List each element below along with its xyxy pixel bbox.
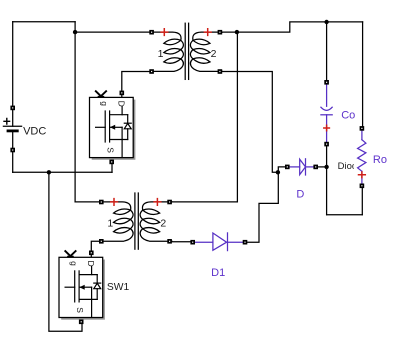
node: primary feed branch bbox=[73, 30, 77, 34]
battery VDC bbox=[3, 119, 21, 131]
diode D1 bbox=[195, 233, 243, 251]
wire: Ro bottom column bbox=[361, 188, 363, 215]
wire: run from node to diode D1 cathode bbox=[247, 172, 278, 242]
capacitor Co polarity + bbox=[324, 125, 330, 131]
wire: transformer2 secondary bottom to D1 anode bbox=[172, 241, 190, 243]
node: D cathode / output bottom bbox=[324, 165, 328, 169]
capacitor Co port squares bbox=[324, 80, 329, 146]
wire: transformer1 secondary top to output top rail bbox=[222, 22, 362, 32]
svg-text:D: D bbox=[296, 188, 304, 200]
wire: transformer2 primary bottom to SW1 D bbox=[91, 241, 99, 257]
wire: VDC positive column bbox=[12, 22, 14, 127]
wire: SW1 source return loop bbox=[49, 172, 82, 331]
node: VDC- / SW1 source bbox=[47, 170, 51, 174]
transistor SW1 (lower MOSFET switch block) bbox=[59, 251, 105, 325]
wire: Co branch from top rail bbox=[326, 22, 328, 80]
svg-text:VDC: VDC bbox=[23, 126, 46, 138]
resistor Ro port squares bbox=[360, 126, 365, 188]
wire: branch to transformer1 primary top bbox=[75, 31, 149, 33]
svg-text:SW1: SW1 bbox=[107, 282, 130, 293]
wire: jog to diode D anode bbox=[278, 167, 285, 172]
node: D anode / D1 cathode bbox=[276, 170, 280, 174]
wire: transformer1 primary bottom to upper switch D bbox=[122, 72, 150, 98]
transformer T2 bbox=[99, 193, 172, 249]
wire: VDC negative column bbox=[12, 131, 14, 172]
wire: VDC- bottom rail to switch S bbox=[13, 171, 112, 173]
wire: Co bottom column bbox=[326, 146, 328, 214]
node: top rail / Co branch bbox=[324, 20, 328, 24]
wire: Ro branch from top rail bbox=[362, 22, 364, 126]
svg-text:Ro: Ro bbox=[373, 154, 387, 166]
diode D bbox=[290, 159, 314, 175]
transformer T1 bbox=[149, 23, 222, 79]
diode D1 port squares bbox=[190, 240, 247, 245]
transistor SW (upper MOSFET switch block) bbox=[90, 91, 136, 165]
text annotation Diode bbox=[338, 161, 363, 172]
svg-text:Co: Co bbox=[341, 110, 355, 122]
node: secondary top branch bbox=[235, 30, 239, 34]
VDC port squares bbox=[10, 106, 15, 153]
diode D port squares bbox=[285, 165, 318, 170]
wire: output bottom rail bbox=[327, 214, 363, 216]
wire: diode D cathode to output node bbox=[318, 166, 327, 168]
wire: riser to upper switch S port bbox=[111, 158, 113, 173]
svg-text:D1: D1 bbox=[211, 267, 225, 279]
wire: primary feed column x=75 bbox=[74, 22, 76, 202]
resistor Ro bbox=[358, 131, 366, 183]
wire: riser transformer2 secondary top bbox=[172, 32, 237, 202]
wire: branch to transformer2 primary top bbox=[75, 201, 99, 203]
wire: transformer1 secondary bottom down-run bbox=[222, 72, 278, 173]
resistor Ro polarity + bbox=[359, 172, 366, 178]
wire: top-left rail VDC+ bbox=[13, 21, 75, 23]
capacitor Co bbox=[321, 85, 332, 142]
